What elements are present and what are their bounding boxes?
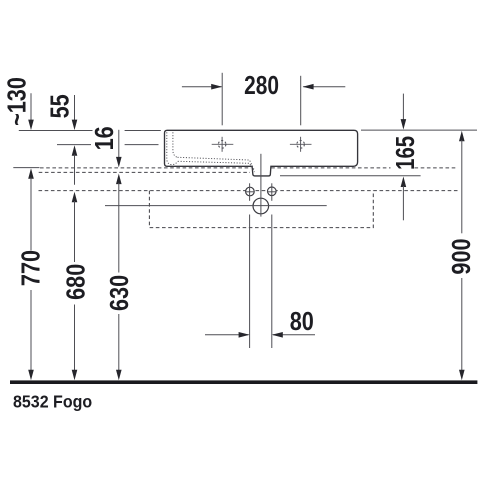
drain circle [253, 198, 269, 214]
arrow down 165 onto sink top ext [401, 119, 407, 130]
dashed hidden line at y168 (console top) [40, 167, 457, 169]
arrow down 55 onto rim line [72, 120, 78, 131]
wire solid tap ledge line right y175.8 [280, 175, 421, 177]
wire 900 col upper shaft [461, 140, 463, 233]
dotted bowl bottom lower slope [178, 161, 255, 172]
svg-text:900: 900 [449, 238, 477, 274]
faucet hole cross left [212, 137, 234, 152]
arrow up 630 at lower dashed line [116, 174, 122, 185]
arrow down 680 at floor [72, 370, 78, 381]
wire left solid sink-bottom extension [13, 167, 39, 169]
arrow down 630 at floor [116, 370, 122, 381]
wire 80 extension line right (through fixing hole) [271, 183, 273, 201]
arrow down 900 at floor [459, 370, 465, 381]
floor line [10, 380, 477, 384]
svg-text:680: 680 [63, 264, 91, 300]
wire rim extension line right part [125, 130, 161, 132]
wire colC shaft from rim down [118, 130, 120, 159]
wire dim 80 left arrow [205, 334, 249, 336]
wire dim col 165 bottom shaft [402, 186, 404, 220]
wire dim line 280 right arrow [303, 86, 345, 88]
svg-text:16: 16 [91, 126, 119, 150]
svg-text:770: 770 [18, 250, 46, 286]
wire colC shaft to label [118, 183, 120, 273]
svg-text:8532 Fogo: 8532 Fogo [13, 392, 92, 412]
svg-text:165: 165 [391, 136, 420, 170]
wire colB shaft to label [74, 201, 76, 262]
wire dim col 55 shaft [74, 95, 76, 121]
fixing hole right circle [268, 187, 277, 196]
arrow up 900 at sink top ext [459, 131, 465, 142]
wire rim extension line left part [19, 130, 93, 132]
sink body outline [165, 130, 358, 176]
wire faucet line 144.6 right part [125, 144, 159, 146]
fixing hole right crosshair horizontal [267, 191, 277, 193]
wire dim 80 right arrow [273, 334, 315, 336]
wire colB shaft below label [74, 305, 76, 372]
wire colB tail below 55 arrow [74, 155, 76, 185]
arrow up bottom of 55 pair [72, 145, 78, 156]
wire 280 extension line left [221, 73, 223, 126]
wire 80 extension line left (through fixing hole) [249, 183, 251, 201]
fixing hole left circle [246, 187, 255, 196]
dashed console underside line y190 [39, 190, 460, 192]
faucet hole cross right [290, 137, 312, 152]
dotted bowl bottom upper slope [178, 157, 255, 169]
wire colA shaft below label [30, 290, 32, 371]
arrow up 165 at ledge line [401, 177, 407, 188]
svg-text:80: 80 [290, 308, 314, 336]
svg-text:55: 55 [47, 94, 75, 118]
svg-text:~130: ~130 [4, 77, 32, 126]
dotted bowl interior left outer wall [167, 132, 178, 164]
wire 280 extension line right [300, 76, 302, 126]
svg-text:280: 280 [244, 71, 279, 99]
wire dim col ~130 shaft [30, 93, 32, 120]
wire sink top extension right [361, 129, 477, 131]
arrow up 680 at dashed console line [72, 192, 78, 203]
arrow down ~130 onto rim line [28, 120, 34, 131]
dotted bowl interior left inner wall [173, 132, 178, 157]
fixing hole left crosshair horizontal [245, 191, 254, 193]
wire towel rail line y205 (drain crosshair) [105, 205, 327, 207]
dashed console rectangle [149, 191, 373, 228]
wire faucet line 144.6 left part [57, 144, 91, 146]
wire dim line 280 left arrow [182, 86, 222, 88]
wire colA shaft to label [30, 178, 32, 251]
wire colC shaft below label [118, 314, 120, 371]
arrow down 770 at floor [28, 370, 34, 381]
dashed hidden line at y172 [39, 171, 250, 173]
arrow down 16 at upper dashed line [116, 157, 122, 168]
svg-text:630: 630 [106, 275, 134, 311]
arrow up 770 at sink bottom line [28, 168, 34, 179]
wire drain centerline [260, 154, 262, 217]
wire 900 col lower shaft [461, 278, 463, 371]
wire dim col 165 top shaft [402, 94, 404, 120]
